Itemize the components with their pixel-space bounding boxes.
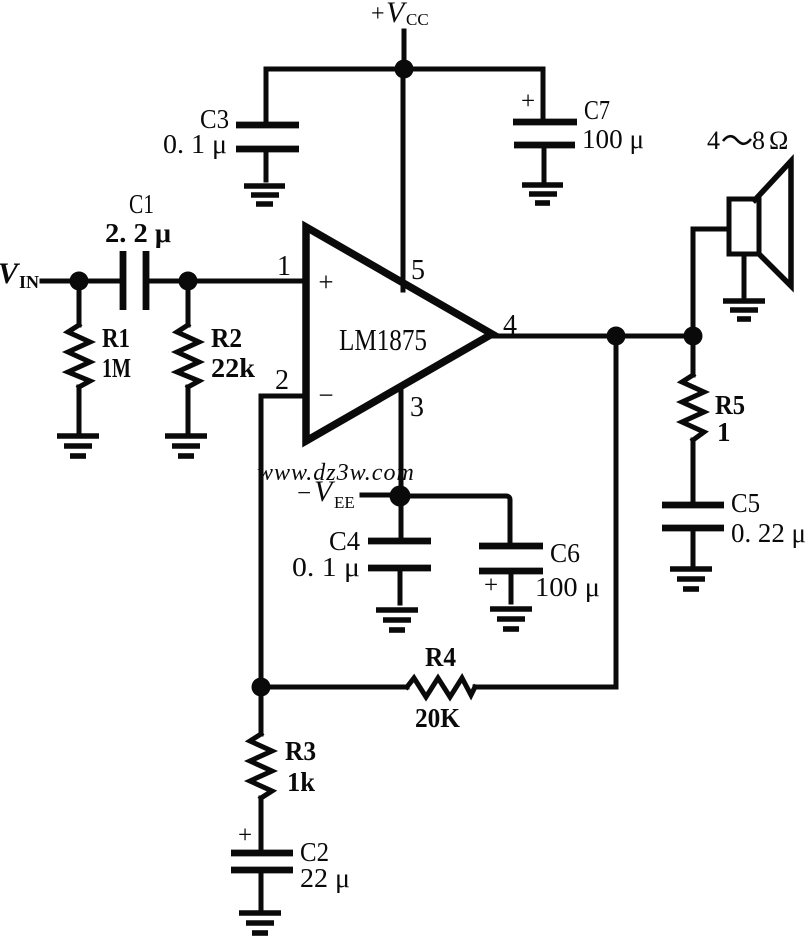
wire R1 drop: [77, 281, 82, 325]
ground R2: [165, 436, 207, 456]
capacitor C3: [236, 125, 299, 180]
wire R1 to ground: [77, 387, 82, 431]
capacitor C6: [479, 546, 543, 602]
svg-text:100 μ: 100 μ: [535, 572, 600, 602]
wire C7 branch: [541, 69, 546, 119]
wire R2 to ground: [186, 387, 191, 431]
resistor R1: [68, 325, 90, 387]
svg-text:C7: C7: [584, 95, 610, 125]
wire top supply rail: [266, 67, 543, 72]
node speaker junction: [684, 327, 703, 346]
svg-text:5: 5: [411, 255, 425, 286]
label C6 value: [535, 538, 600, 602]
svg-text:+: +: [521, 88, 535, 115]
resistor R2: [177, 325, 199, 387]
wire output to bottom rail: [614, 336, 619, 686]
svg-text:R3: R3: [285, 736, 316, 766]
wire C3 branch: [264, 69, 269, 123]
wire VCC to pin 5: [401, 69, 406, 290]
svg-text:0. 1 μ: 0. 1 μ: [163, 129, 227, 159]
wire output: [492, 334, 693, 339]
svg-text:+: +: [318, 267, 333, 297]
svg-text:3: 3: [410, 392, 424, 423]
svg-text:R2: R2: [211, 323, 242, 353]
svg-text:1: 1: [717, 417, 731, 447]
label -VEE: [297, 475, 355, 512]
label C2 value: [300, 837, 350, 893]
label R2 value: [211, 323, 255, 383]
label R4 value: [415, 642, 460, 733]
wire -VEE stub: [362, 493, 401, 498]
ground C5: [670, 569, 712, 589]
capacitor C2: [231, 822, 293, 908]
wire C1 to op-amp: [148, 279, 306, 284]
svg-text:R5: R5: [715, 390, 745, 420]
node output junction: [607, 327, 626, 346]
svg-text:LM1875: LM1875: [339, 322, 427, 357]
node input junction: [70, 272, 89, 291]
svg-text:+: +: [484, 572, 498, 599]
svg-text:C5: C5: [731, 488, 760, 518]
label C4 value: [292, 526, 360, 582]
resistor R4: [407, 678, 475, 697]
svg-text:IN: IN: [19, 272, 39, 292]
svg-text:22k: 22k: [211, 353, 255, 383]
wire pin 3 to VEE node: [399, 387, 404, 540]
svg-text:1k: 1k: [287, 767, 315, 797]
svg-text:C1: C1: [129, 189, 154, 219]
svg-text:www.dz3w.com: www.dz3w.com: [257, 460, 415, 486]
wire input: [42, 279, 121, 284]
svg-text:1: 1: [277, 251, 291, 282]
ground C2: [239, 913, 281, 933]
svg-text:20K: 20K: [415, 703, 460, 733]
label C7 value: [582, 95, 644, 154]
ground C7: [522, 185, 563, 203]
svg-text:CC: CC: [406, 10, 429, 29]
svg-text:R1: R1: [102, 323, 130, 353]
capacitor C5: [662, 505, 724, 564]
power +VCC label: [371, 0, 429, 29]
ground R1: [57, 436, 99, 456]
ground C6: [490, 609, 532, 629]
op-amp U1 LM1875: [306, 227, 492, 441]
capacitor C7: [513, 88, 577, 180]
svg-text:+: +: [371, 1, 385, 27]
label C1 value: [105, 189, 171, 248]
svg-text:+: +: [238, 822, 252, 849]
svg-text:C6: C6: [550, 538, 580, 568]
svg-text:0. 1 μ: 0. 1 μ: [292, 552, 360, 582]
svg-text:V: V: [0, 257, 21, 290]
label speaker impedance: [707, 126, 788, 155]
label R1 value: [102, 323, 131, 383]
label C5 value: [731, 488, 806, 548]
wire +VCC stub: [402, 31, 407, 69]
node VCC junction: [395, 60, 414, 79]
ground speaker: [723, 301, 765, 319]
label VIN: [0, 257, 39, 292]
capacitor C4: [368, 541, 431, 603]
node feedback junction: [252, 678, 271, 697]
wire feedback vertical left: [259, 396, 264, 687]
wire VEE to C6: [400, 496, 510, 541]
svg-text:22 μ: 22 μ: [300, 863, 350, 893]
svg-text:2: 2: [275, 365, 289, 396]
resistor R5: [682, 336, 704, 500]
svg-text:4: 4: [707, 126, 720, 155]
ground C4: [376, 610, 418, 630]
svg-text:2. 2 μ: 2. 2 μ: [105, 218, 171, 248]
wire pin 2 stub: [261, 394, 306, 399]
ground C3: [244, 186, 285, 204]
label R5 value: [715, 390, 745, 447]
node VEE junction: [390, 486, 411, 507]
svg-text:Ω: Ω: [769, 126, 788, 155]
speaker LS1: [729, 161, 791, 297]
label R3 value: [285, 736, 316, 797]
svg-text:0. 22 μ: 0. 22 μ: [731, 518, 806, 548]
svg-text:8: 8: [752, 126, 765, 155]
wire bottom rail: [261, 680, 616, 687]
svg-text:1M: 1M: [102, 353, 131, 383]
resistor R3: [250, 687, 272, 849]
node after C1: [179, 272, 198, 291]
capacitor C1: [123, 251, 146, 310]
wire speaker branch: [693, 229, 729, 336]
svg-text:100 μ: 100 μ: [582, 124, 644, 154]
wire R2 drop: [186, 281, 191, 325]
label C3 value: [163, 104, 229, 159]
svg-text:R4: R4: [425, 642, 456, 672]
svg-text:EE: EE: [334, 493, 355, 512]
svg-text:−: −: [318, 380, 333, 410]
